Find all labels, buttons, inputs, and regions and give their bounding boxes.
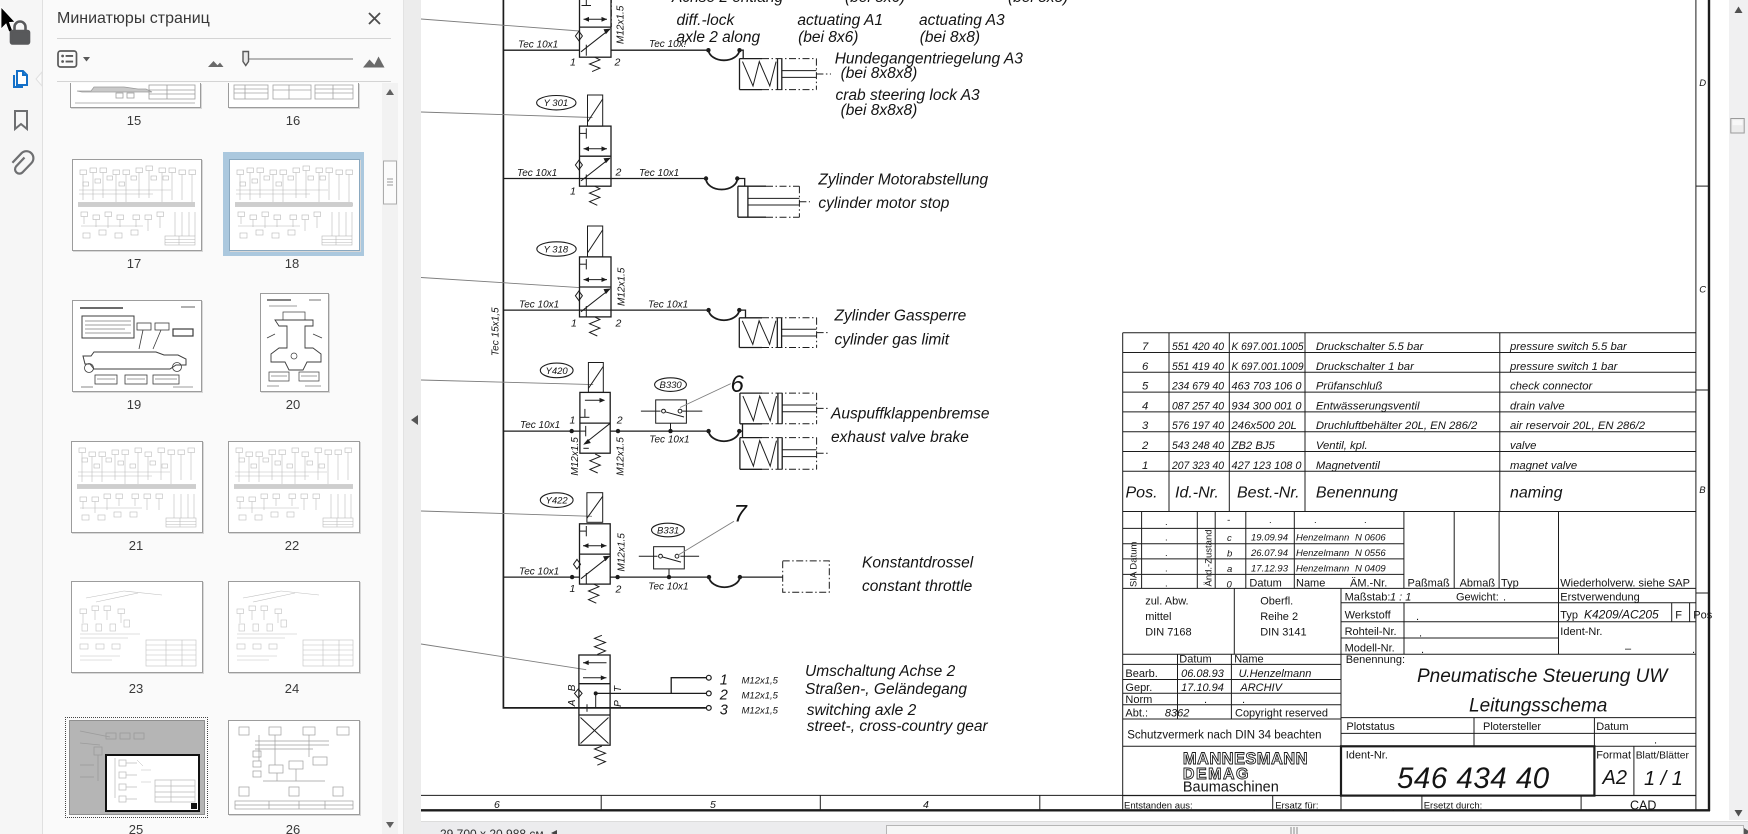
svg-text:T: T [613,685,624,692]
svg-text:2: 2 [616,415,623,427]
svg-text:4: 4 [1142,400,1148,412]
svg-text:2: 2 [615,167,622,179]
wire V1 port 2 to hose [611,49,708,51]
parts row 7 pressure switch 5.5 bar [1142,341,1628,353]
svg-text:ÄM.-Nr.: ÄM.-Nr. [1350,578,1387,590]
svg-text:DIN 3141: DIN 3141 [1260,627,1306,639]
desc text constant throttle [862,555,974,596]
svg-text:(bei 8x8): (bei 8x8) [1008,0,1068,6]
Rohteil row [1345,626,1603,640]
svg-text:M12x1,5: M12x1,5 [742,706,779,717]
svg-text:M12x1.5: M12x1.5 [617,533,628,572]
status bar [421,821,1748,834]
parts row 2 valve [1141,440,1536,452]
svg-text:Y 318: Y 318 [544,245,569,256]
svg-text:.: . [1242,694,1245,706]
svg-text:Name: Name [1296,578,1325,590]
svg-text:427 123 108 0: 427 123 108 0 [1232,460,1303,472]
spring of Y318 [590,317,600,336]
parts list grid [1123,333,1696,811]
svg-text:2: 2 [615,584,622,596]
svg-text:234 679 40: 234 679 40 [1171,381,1225,393]
svg-text:Pneumatische Steuerung UW: Pneumatische Steuerung UW [1417,666,1669,687]
svg-text:–: – [1625,643,1632,655]
panel header [57,10,210,28]
svg-text:ARCHIV: ARCHIV [1239,682,1283,694]
svg-text:7: 7 [734,501,749,528]
spring of V1 [590,57,600,71]
slider thumb [243,52,249,66]
svg-text:Id.-Nr.: Id.-Nr. [1175,485,1219,502]
svg-text:a: a [1227,564,1232,575]
svg-text:actuating A3: actuating A3 [919,12,1005,29]
pilot diamond [575,689,583,698]
page 17 thumbnail [72,159,202,251]
svg-text:B: B [567,684,578,691]
svg-text:SIA Datum: SIA Datum [1129,542,1140,587]
splitter [403,0,422,834]
wire hose to gas-limit cylinder [739,310,745,318]
zone ticks right [1696,185,1709,187]
wire hose to exhaust brake cylinders [739,424,742,438]
svg-text:(bei 8x6): (bei 8x6) [798,29,858,46]
desc text motor stop [817,172,988,213]
svg-text:Tec 10x1: Tec 10x1 [517,168,557,179]
axle-switch valve (4/2, spring centered) [575,635,611,765]
svg-text:cylinder gas limit: cylinder gas limit [835,332,950,349]
vertical scrollbar [1729,0,1748,820]
wire supply to Y318 [503,309,579,311]
svg-text:Achse 2 entlang: Achse 2 entlang [671,0,784,6]
TITLEBLOCK [1123,654,1696,815]
Plotstatus row [1346,721,1657,747]
svg-text:Zylinder Gassperre: Zylinder Gassperre [834,308,967,325]
panel toolbar [57,50,393,72]
cylinder motor stop [738,186,810,217]
spring of Y422 [589,584,599,603]
wire supply to Y422 [503,576,579,578]
tolerance / scale block [1234,588,1696,811]
svg-text:Ventil, kpl.: Ventil, kpl. [1316,440,1368,452]
svg-text:.: . [1165,579,1168,590]
solenoid valve Y420 (3/2 NO) [540,363,610,473]
svg-text:2: 2 [614,57,621,69]
svg-text:M12x1.5: M12x1.5 [616,5,627,44]
slider track [243,58,353,60]
svg-text:Baumaschinen: Baumaschinen [1183,780,1279,796]
svg-text:Datum: Datum [1179,654,1211,666]
svg-text:Oberfl.: Oberfl. [1260,596,1293,608]
page 16 thumbnail (cut at top) [228,83,359,108]
wire hose to motor-stop cylinder [737,179,744,187]
svg-text:Norm: Norm [1125,694,1152,706]
svg-text:2: 2 [615,318,622,330]
drawing frame right inner line [1695,0,1697,810]
svg-text:Y422: Y422 [546,496,569,507]
svg-text:M12x1,5: M12x1,5 [742,691,779,702]
drawing frame right outer line [1708,0,1710,811]
svg-text:(bei 8x8x8): (bei 8x8x8) [841,102,918,119]
wire Y318 to hose [580,309,709,311]
svg-text:1: 1 [720,672,728,688]
hose loop Y420 [706,429,710,433]
svg-text:Copyright reserved: Copyright reserved [1235,708,1328,720]
svg-text:F: F [1675,610,1682,622]
svg-text:1 / 1: 1 / 1 [1644,768,1683,790]
panel scrollbar [382,83,398,834]
svg-text:air reservoir 20L, EN 286/2: air reservoir 20L, EN 286/2 [1510,420,1646,432]
port connector circles 1 2 3 [706,675,711,680]
svg-text:.: . [1503,592,1506,604]
leader wire to valve Y422 [421,511,592,516]
svg-text:Entstanden aus:: Entstanden aus: [1124,801,1193,812]
revision row a [1251,564,1386,575]
main supply line Tec 15x1,5 [503,0,706,708]
svg-text:B331: B331 [657,526,679,537]
svg-text:M12x1.5: M12x1.5 [570,437,581,476]
revision dots column [1165,517,1168,590]
svg-text:Prüfanschluß: Prüfanschluß [1316,381,1383,393]
svg-text:.: . [1654,735,1657,747]
svg-text:b: b [1227,549,1232,560]
solenoid valve Y301 (3/2 NC) [537,95,611,205]
svg-text:Werkstoff: Werkstoff [1345,610,1392,622]
svg-text:Tec 10x1: Tec 10x1 [519,299,559,310]
svg-text:1: 1 [571,318,577,330]
svg-text:Schutzvermerk nach DIN 34 beac: Schutzvermerk nach DIN 34 beachten [1127,730,1321,742]
svg-text:Magnetventil: Magnetventil [1316,460,1381,472]
cylinder exhaust brake lower (spring return) [740,438,830,470]
spring of Y301 [590,186,600,205]
svg-text:(bei 8x8x8): (bei 8x8x8) [841,65,918,82]
leader and label 6 [680,384,731,408]
drawing frame bottom inner line [421,794,1696,796]
svg-text:constant throttle: constant throttle [862,578,973,595]
pressure switch B330 [641,378,702,433]
svg-text:Typ: Typ [1560,610,1578,622]
heavy box around Ident-Nr. [1341,746,1594,795]
page 26 thumbnail [228,720,360,815]
svg-text:2: 2 [1141,440,1149,452]
svg-text:Henzelmann: Henzelmann [1296,564,1349,575]
svg-text:.: . [1419,628,1422,640]
options button [58,51,77,67]
svg-text:207 323 40: 207 323 40 [1171,460,1225,472]
svg-text:.: . [1540,803,1543,814]
svg-text:551 420 40: 551 420 40 [1172,341,1225,353]
svg-text:087 257 40: 087 257 40 [1172,400,1225,412]
svg-text:Ersatz für:: Ersatz für: [1275,801,1318,812]
svg-text:DIN 7168: DIN 7168 [1145,627,1191,639]
parts row 6 pressure switch 1 bar [1142,361,1619,373]
cut-off text row at very top [671,0,1068,6]
svg-text:Pos: Pos [1693,610,1712,622]
mouse cursor [1,7,15,32]
svg-text:K 697.001.1009: K 697.001.1009 [1232,361,1305,373]
svg-text:Henzelmann: Henzelmann [1296,548,1349,559]
svg-text:Format: Format [1596,750,1631,762]
svg-text:6: 6 [494,799,500,811]
svg-text:(bei 8x8): (bei 8x8) [920,29,980,46]
svg-text:1 : 1: 1 : 1 [1390,592,1411,604]
svg-text:Erstverwendung: Erstverwendung [1560,592,1640,604]
svg-text:A2: A2 [1602,767,1627,789]
revision row top dots [1269,515,1367,526]
approval rows [1179,654,1263,666]
svg-text:magnet valve: magnet valve [1510,460,1577,472]
svg-text:Tec 10x1: Tec 10x1 [519,567,559,578]
svg-text:Tec 10x1: Tec 10x1 [649,435,689,446]
wire Y420 to hose [610,430,708,432]
page 18 thumbnail (selected) [223,152,364,256]
svg-text:543 248 40: 543 248 40 [1172,440,1225,452]
svg-text:N 0556: N 0556 [1355,548,1386,559]
svg-text:.: . [1253,803,1256,814]
svg-text:Leitungsschema: Leitungsschema [1469,696,1607,717]
svg-text:.: . [1165,548,1168,559]
hose loop Y422 [707,575,711,579]
svg-text:546 434 40: 546 434 40 [1397,762,1550,795]
svg-text:M12x1,5: M12x1,5 [742,676,779,687]
svg-text:3: 3 [1142,420,1149,432]
leader wire to valve V1 [421,19,580,31]
svg-text:Rohteil-Nr.: Rohteil-Nr. [1345,626,1397,638]
svg-text:Änd.-Zustand: Änd.-Zustand [1204,529,1215,586]
svg-text:Datum: Datum [1249,578,1281,590]
Modell row [1345,643,1695,657]
svg-text:Gepr.: Gepr. [1125,682,1152,694]
svg-text:B330: B330 [660,380,683,391]
svg-text:.: . [1392,803,1395,814]
bottom spring [595,746,606,765]
svg-text:c: c [1227,533,1232,544]
svg-text:26.07.94: 26.07.94 [1250,548,1288,559]
svg-text:Benennung: Benennung [1316,485,1398,502]
Werkstoff row [1345,608,1713,624]
page 21 thumbnail [71,441,203,533]
svg-text:P: P [613,700,624,707]
svg-text:2: 2 [719,687,728,703]
Entstanden row [1124,801,1543,815]
svg-text:.: . [1314,515,1317,526]
svg-text:Typ: Typ [1501,578,1519,590]
desc text exhaust brake [830,406,990,447]
svg-text:06.08.93: 06.08.93 [1181,668,1225,680]
wire supply to Y420 [503,430,580,432]
svg-text:Plotersteller: Plotersteller [1483,721,1541,733]
svg-text:Paßmaß: Paßmaß [1408,578,1450,590]
Maßstab row [1345,592,1640,604]
svg-text:CAD: CAD [1630,799,1656,813]
page 15 thumbnail (cut at top) [70,83,201,108]
PARTSTABLE [1123,333,1696,811]
wire supply to Y301 [503,178,579,180]
svg-text:7: 7 [1142,341,1149,353]
leader wire to valve Y420 [421,380,593,385]
svg-text:4: 4 [923,799,929,811]
svg-text:drain valve: drain valve [1510,400,1565,412]
svg-text:M12x1.5: M12x1.5 [617,267,628,306]
parts row 4 drain valve [1142,400,1565,412]
svg-text:valve: valve [1510,440,1536,452]
svg-text:1: 1 [570,583,576,595]
svg-text:1: 1 [1142,460,1148,472]
page 22 thumbnail [228,441,360,533]
svg-text:naming: naming [1510,485,1563,502]
svg-text:K4209/AC205: K4209/AC205 [1584,608,1659,622]
svg-text:actuating A1: actuating A1 [797,12,883,29]
svg-text:576 197 40: 576 197 40 [1172,420,1225,432]
svg-text:Name: Name [1234,654,1263,666]
svg-text:Entwässerungsventil: Entwässerungsventil [1316,400,1420,412]
spring of Y420 [590,454,600,473]
svg-text:463 703 106 0: 463 703 106 0 [1232,381,1303,393]
svg-text:pressure switch 5.5 bar: pressure switch 5.5 bar [1509,341,1628,353]
page thumbnails icon (active, blue) [14,71,27,87]
svg-text:.: . [1364,515,1367,526]
svg-text:.: . [1165,564,1168,575]
svg-text:5: 5 [1142,381,1149,393]
pressure switch B331 [639,523,699,579]
svg-text:M12x1.5: M12x1.5 [615,437,626,476]
svg-text:5: 5 [710,799,716,811]
solenoid valve Y318 (3/2 NC) [537,226,611,336]
revision block grid [1123,512,1696,589]
svg-text:Tec 15x1,5: Tec 15x1,5 [491,307,502,356]
svg-text:street-, cross-country gear: street-, cross-country gear [807,718,989,735]
svg-text:Umschaltung Achse 2: Umschaltung Achse 2 [805,663,956,680]
svg-text:N 0606: N 0606 [1355,533,1386,544]
zone ticks bottom [600,795,602,810]
desc text axle switching [805,663,989,735]
svg-text:pressure switch 1 bar: pressure switch 1 bar [1509,361,1619,373]
svg-text:Auspuffklappenbremse: Auspuffklappenbremse [830,406,990,423]
svg-text:K 697.001.1005: K 697.001.1005 [1232,341,1305,353]
paperclip icon [12,151,33,173]
svg-text:Straßen-, Geländegang: Straßen-, Geländegang [805,681,967,698]
wire branch to port 1 connector [671,678,706,694]
svg-text:Plotstatus: Plotstatus [1346,721,1395,733]
solenoid valve Y422 (3/2 NC) [540,493,610,603]
svg-text:Y 301: Y 301 [544,98,569,109]
svg-text:Wiederholverw. siehe SAP: Wiederholverw. siehe SAP [1560,578,1690,590]
parts header row [1126,485,1563,502]
svg-text:0: 0 [1227,580,1233,591]
leader wire to axle-switch valve [421,644,586,670]
title block grid [1123,654,1696,811]
svg-text:1: 1 [570,57,576,69]
leader wire to valve Y301 [421,112,593,118]
svg-text:exhaust valve brake: exhaust valve brake [831,429,969,446]
revision row b [1250,548,1386,559]
parts row 1 magnet valve [1142,460,1577,472]
Oberfl. cell [1260,596,1306,639]
wire hose to throttle [740,576,783,578]
page 23 thumbnail [71,581,203,673]
svg-text:Y420: Y420 [546,366,569,377]
revision index letters [1227,515,1233,591]
svg-text:19.09.94: 19.09.94 [1251,533,1288,544]
leader and label 7 [678,521,734,555]
svg-text:switching axle 2: switching axle 2 [807,702,917,719]
left tool sidebar [0,0,43,834]
internal P tee [586,704,588,712]
port junction dots Y422 [570,575,574,579]
svg-text:Blatt/Blätter: Blatt/Blätter [1636,751,1690,762]
desc text gas limit [834,308,967,349]
wire valve to port 2 connector [596,692,707,694]
svg-text:Pos.: Pos. [1126,485,1158,502]
svg-text:Henzelmann: Henzelmann [1296,533,1349,544]
desc text diff.-lock [677,12,1024,119]
REVBLOCK [1123,512,1713,812]
svg-text:Tec 10x1: Tec 10x1 [639,168,679,179]
svg-text:Reihe 2: Reihe 2 [1260,611,1298,623]
valve V1 diff.-lock (3/2, cut at top) [575,0,611,72]
svg-text:17.12.93: 17.12.93 [1251,564,1289,575]
svg-text:Abmaß: Abmaß [1460,578,1496,590]
parts row 3 air reservoir [1142,420,1646,432]
lock icon [11,22,29,44]
svg-text:Tec 10x1: Tec 10x1 [648,582,688,593]
svg-text:C: C [1699,285,1706,296]
thumbnails panel [43,0,403,834]
svg-text:Modell-Nr.: Modell-Nr. [1345,643,1395,655]
svg-text:.: . [1416,611,1419,623]
cylinder exhaust brake upper (spring return) [740,393,830,424]
drawing frame bottom outer line [421,809,1710,811]
svg-text:.: . [1269,515,1272,526]
svg-text:D: D [1699,78,1706,89]
svg-text:Gewicht:: Gewicht: [1456,592,1499,604]
port junction dots Y420 [570,429,574,433]
svg-text:(bei 8x6): (bei 8x6) [845,0,905,6]
zul. Abw. cell [1145,596,1191,639]
active-tab notch [36,72,42,86]
svg-text:axle 2 along: axle 2 along [677,29,761,46]
svg-text:mittel: mittel [1145,611,1171,623]
page 20 thumbnail [260,293,329,392]
svg-text:8362: 8362 [1165,708,1189,720]
svg-text:Konstantdrossel: Konstantdrossel [862,555,974,572]
big mountains [363,60,383,68]
hose loop V1 [706,48,710,52]
svg-text:check connector: check connector [1510,381,1593,393]
svg-text:Druckschalter 1 bar: Druckschalter 1 bar [1316,361,1415,373]
main document area [421,0,1729,821]
parts row 5 check connector [1142,381,1593,393]
svg-text:934 300 001 0: 934 300 001 0 [1232,400,1303,412]
svg-text:551 419 40: 551 419 40 [1172,361,1225,373]
svg-text:cylinder motor stop: cylinder motor stop [818,195,949,212]
svg-text:B: B [1699,485,1706,496]
svg-text:6: 6 [1142,361,1149,373]
svg-text:Abt.:: Abt.: [1125,708,1148,720]
svg-text:1: 1 [570,186,576,198]
constant throttle (dash-dot box) [783,561,830,592]
revision header row [1249,578,1690,590]
svg-text:Druchluftbehälter 20L, EN 286/: Druchluftbehälter 20L, EN 286/2 [1316,420,1478,432]
svg-text:246x500 20L: 246x500 20L [1231,420,1297,432]
wire supply to V1 port 1 [503,49,579,51]
svg-text:Bearb.: Bearb. [1125,668,1157,680]
svg-text:.: . [1165,533,1168,544]
svg-text:N 0409: N 0409 [1355,564,1386,575]
wire Y301 to hose [580,178,707,180]
cylinder Hundegangentriegelung A3 (spring return) [740,59,832,90]
svg-text:diff.-lock: diff.-lock [677,12,736,29]
top spring [595,635,606,654]
